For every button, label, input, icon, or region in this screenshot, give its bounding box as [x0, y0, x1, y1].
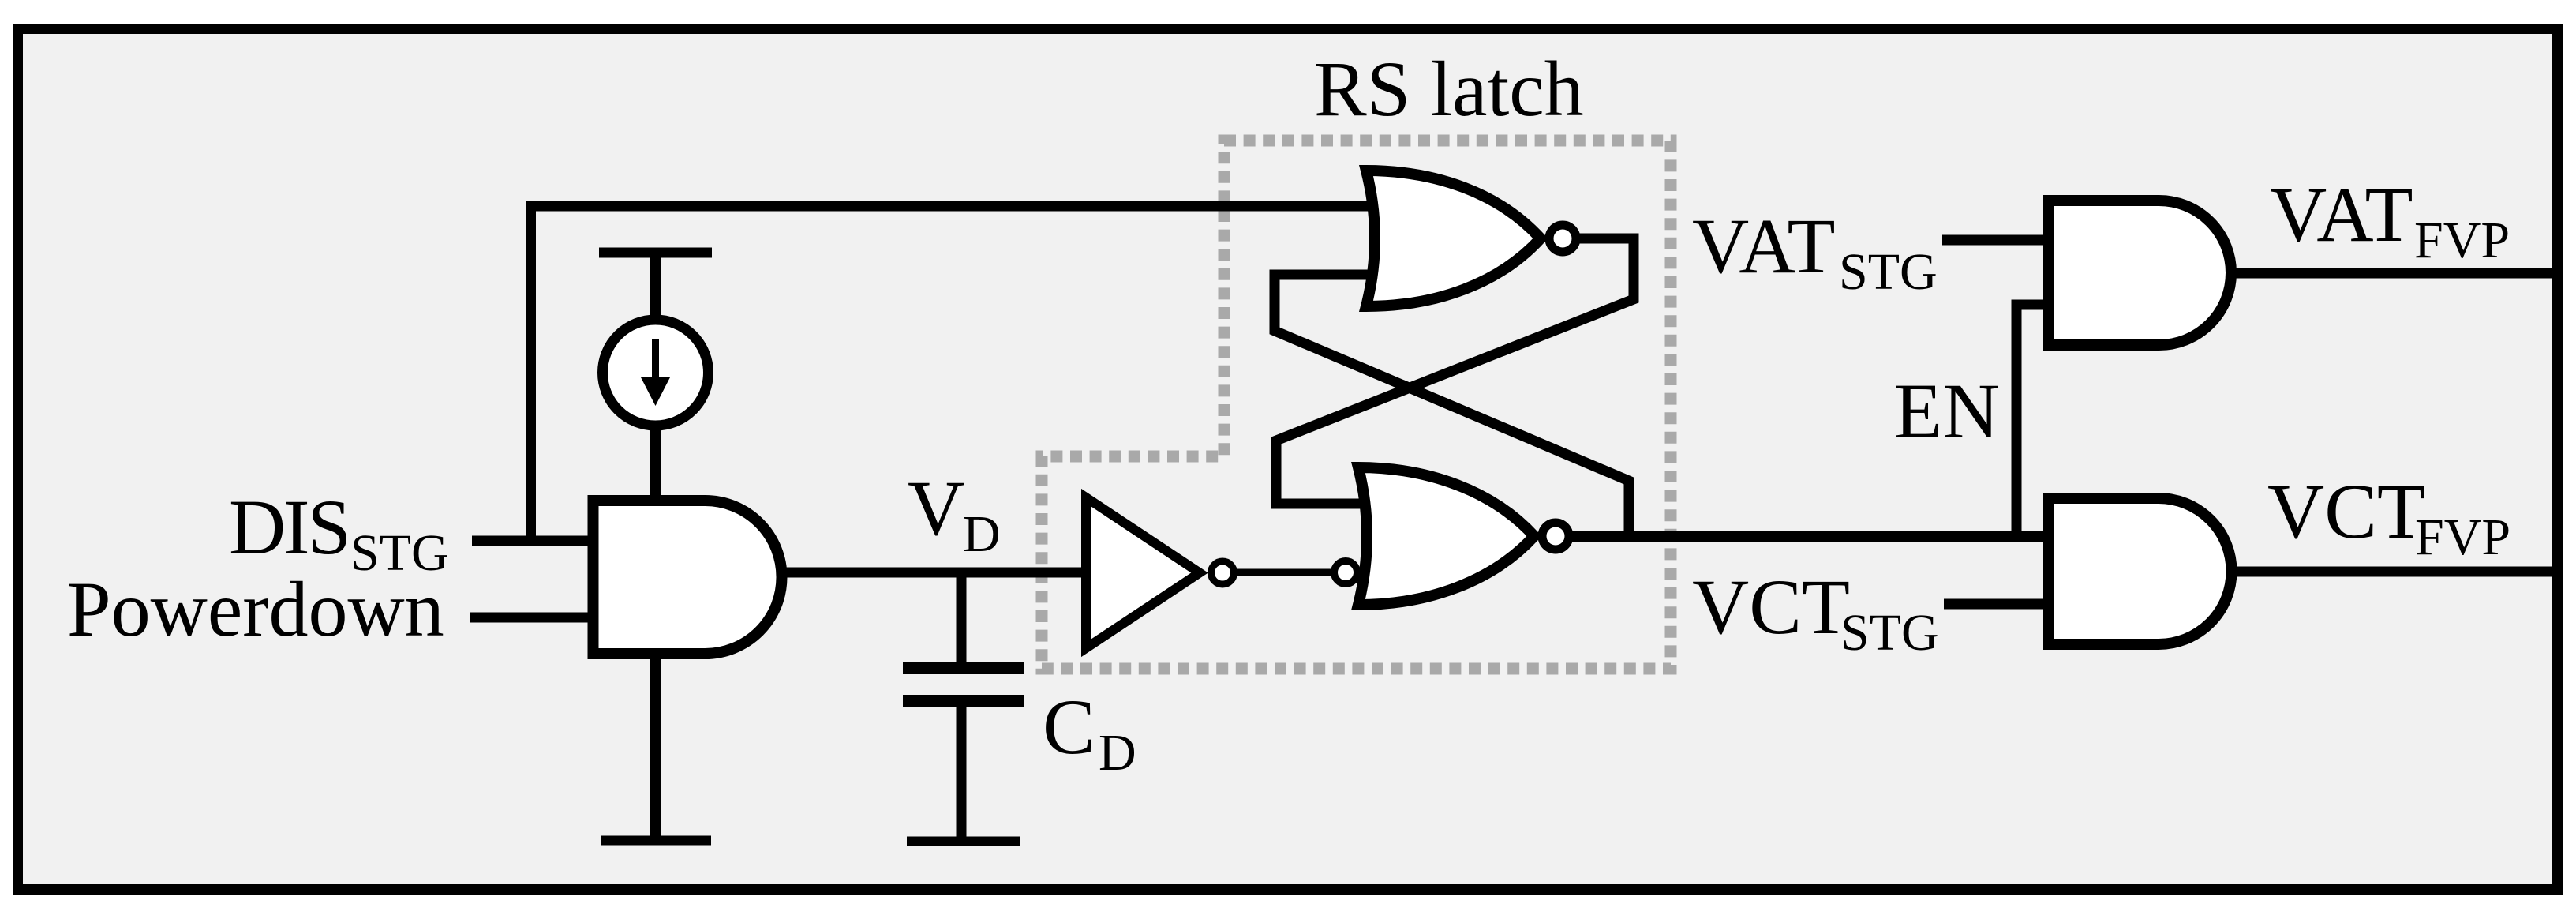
svg-text:VCT: VCT: [2267, 467, 2425, 555]
svg-text:VCT: VCT: [1692, 563, 1850, 651]
svg-text:EN: EN: [1894, 367, 1999, 455]
NOR gate G1 (top of RS latch): [1366, 171, 1541, 306]
wire VCT_FVP output: [2231, 567, 2557, 577]
NOR G2 input bubble: [1335, 561, 1357, 584]
svg-text:FVP: FVP: [2414, 212, 2510, 269]
wire capacitor CD to ground: [957, 701, 967, 837]
wire VAT_FVP output: [2231, 268, 2557, 279]
wire feedback NOR G1 output to NOR G2 input: [1276, 238, 1634, 504]
AND gate U3 (VAT): [2049, 201, 2231, 345]
inverter U2 output bubble: [1211, 561, 1234, 584]
capacitor CD bottom plate: [903, 695, 1024, 707]
AND gate U1 (left): [593, 501, 782, 654]
AND gate U4 (VCT): [2049, 498, 2232, 644]
current source I1: [603, 320, 709, 426]
wire node VD: AND output to inverter: [777, 568, 1083, 578]
inverter U2: [1086, 497, 1200, 648]
svg-text:VAT: VAT: [1692, 202, 1836, 290]
wire current source to AND gate U1: [650, 423, 661, 506]
NOR G2 output bubble: [1542, 523, 1569, 550]
wire NOR G2 output to VCT AND gate: [1556, 531, 2052, 542]
wire supply to current source: [650, 253, 661, 322]
dotted region outline (RS latch + inverter group): [1042, 141, 1671, 669]
capacitor CD top plate: [903, 662, 1024, 674]
wire EN vertical: [2016, 305, 2052, 537]
wire VCT_STG input: [1944, 599, 2052, 610]
wire inverter output to NOR G2 input (bubbled): [1225, 569, 1342, 576]
svg-text:D: D: [963, 505, 1001, 563]
svg-text:D: D: [1099, 724, 1136, 782]
NOR gate G2 (bottom of RS latch): [1358, 467, 1534, 605]
svg-text:STG: STG: [1839, 243, 1938, 301]
svg-text:VAT: VAT: [2270, 171, 2413, 258]
wire top rail to RS latch set input: [526, 201, 1383, 212]
wire DIS to top rail (vertical): [526, 201, 536, 546]
wire VD junction to capacitor CD: [957, 572, 967, 668]
ground bar under capacitor CD: [907, 837, 1020, 846]
svg-text:V: V: [908, 464, 964, 552]
wire AND gate U1 to ground: [650, 648, 661, 836]
svg-text:C: C: [1043, 683, 1095, 771]
supply bar above current source: [599, 248, 712, 258]
wire DIS_STG input: [472, 536, 598, 546]
svg-text:Powerdown: Powerdown: [67, 565, 444, 653]
wire feedback NOR G2 output to NOR G1 input: [1275, 275, 1629, 537]
wire VAT_STG input: [1942, 235, 2052, 246]
NOR G1 output bubble: [1549, 225, 1576, 252]
svg-text:STG: STG: [1840, 604, 1939, 662]
wire Powerdown input: [470, 613, 598, 623]
ground bar under AND gate U1: [601, 836, 711, 846]
svg-text:RS latch: RS latch: [1314, 45, 1584, 133]
svg-text:DIS: DIS: [229, 483, 349, 571]
svg-text:FVP: FVP: [2415, 508, 2510, 566]
